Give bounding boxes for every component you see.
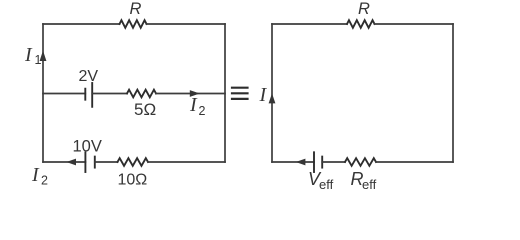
svg-text:R: R (358, 0, 370, 18)
current arrow (leftward, bottom of right circuit) (296, 159, 306, 166)
wire: right circuit bottom right segment (376, 161, 453, 163)
wire: left circuit left side (42, 24, 44, 162)
battery 2V (short plate left, long plate right) (85, 83, 92, 107)
wire: right circuit top side, left of R (272, 23, 347, 25)
wire: right circuit bottom left segment (272, 161, 314, 163)
wire: middle branch left segment (43, 93, 85, 95)
wire: bottom branch right segment (148, 161, 225, 163)
label I2 (middle branch) (189, 94, 206, 118)
svg-text:10Ω: 10Ω (118, 172, 148, 189)
resistor 10 ohm (118, 158, 149, 166)
wire: left circuit top side, left of R (43, 23, 120, 25)
wire: middle branch, battery to 5-ohm resistor (92, 93, 127, 95)
label I1 (24, 44, 42, 67)
wire: middle branch right segment (156, 93, 225, 95)
current arrow I2 (leftward, bottom branch) (66, 159, 76, 166)
wire: right circuit bottom, battery to Reff (322, 161, 345, 163)
current arrow I1 (upward, left side) (40, 51, 47, 62)
wire: bottom branch, battery to 10-ohm resistor (95, 161, 118, 163)
svg-text:I: I (259, 84, 268, 106)
wire: left circuit top side, right of R (147, 23, 226, 25)
battery 10V (long plate left, short plate right) (85, 152, 94, 172)
svg-text:I: I (189, 94, 198, 116)
current arrow I (upward, right circuit left side) (269, 93, 276, 103)
svg-text:2: 2 (41, 173, 48, 187)
resistor Reff (345, 158, 376, 166)
equivalence symbol (232, 88, 248, 99)
svg-text:eff: eff (319, 177, 334, 192)
svg-text:5Ω: 5Ω (134, 100, 156, 119)
label Veff (308, 169, 334, 192)
resistor R (left circuit) (120, 20, 147, 28)
current arrow I2 (rightward, middle branch) (190, 90, 200, 97)
wire: right circuit left side (271, 24, 273, 162)
label Reff (351, 169, 377, 192)
resistor 5 ohm (127, 90, 156, 98)
svg-text:2V: 2V (79, 68, 99, 85)
svg-text:I: I (24, 44, 33, 66)
svg-text:2: 2 (199, 104, 206, 118)
label I2 (bottom left corner) (31, 164, 48, 187)
wire: right circuit top side, right of R (375, 23, 454, 25)
wire: left circuit right side (224, 24, 226, 162)
svg-text:10V: 10V (73, 137, 102, 155)
svg-text:eff: eff (362, 177, 377, 192)
svg-text:1: 1 (35, 53, 42, 67)
svg-text:I: I (31, 164, 40, 186)
wire: right circuit right side (452, 24, 454, 162)
wire: bottom branch left segment (43, 161, 85, 163)
battery Veff (long plate left, short plate right) (314, 152, 322, 172)
resistor R (right circuit) (347, 20, 375, 28)
svg-text:R: R (130, 0, 142, 18)
